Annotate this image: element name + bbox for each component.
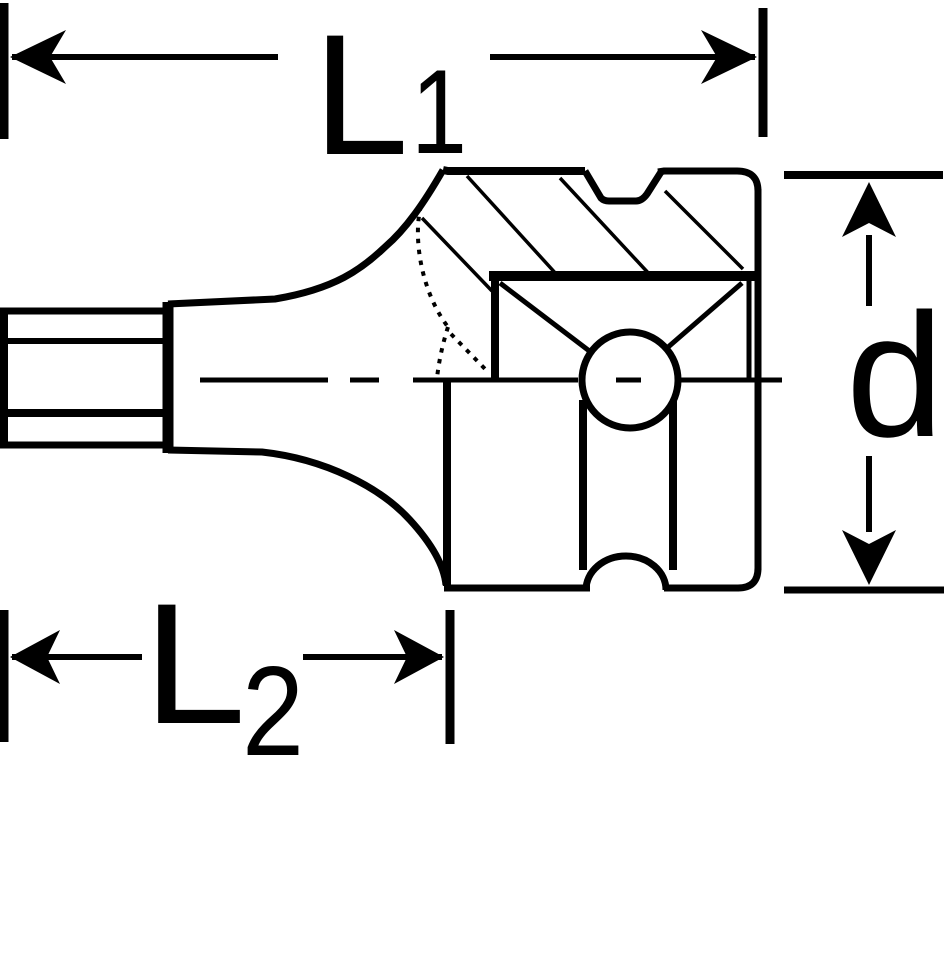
svg-text:1: 1 bbox=[411, 45, 467, 179]
section hatch line B bbox=[560, 178, 652, 277]
svg-text:2: 2 bbox=[242, 640, 304, 782]
drive head lower-left edge bbox=[443, 380, 451, 586]
dimension L1 arrow left bbox=[10, 30, 278, 84]
dimension L1 arrow right bbox=[490, 30, 757, 84]
hex bit bottom edge bbox=[0, 442, 167, 449]
drive head right edge bbox=[755, 189, 762, 570]
hex bit top edge bbox=[0, 308, 167, 315]
hex bit facet line upper bbox=[0, 338, 167, 344]
svg-text:L: L bbox=[313, 0, 409, 191]
centerline dash 2 bbox=[350, 378, 379, 383]
drive head bottom edge right of arch bbox=[664, 585, 739, 592]
section hatch line C bbox=[665, 191, 743, 269]
square drive top line (thick) bbox=[489, 271, 755, 281]
section boundary dotted curve bbox=[418, 206, 448, 327]
body top contour bbox=[168, 170, 443, 304]
drive head bottom edge left of arch bbox=[444, 585, 590, 592]
section boundary dotted branch lower-right bbox=[451, 334, 488, 372]
square drive V diagonal right bbox=[667, 283, 742, 348]
dimension L2 arrow right bbox=[303, 630, 444, 684]
drive head bottom-right corner bbox=[738, 568, 758, 588]
hex bit left end cap bbox=[0, 308, 8, 448]
section boundary dotted branch lower-left bbox=[437, 327, 448, 378]
body bottom contour bbox=[168, 450, 446, 585]
dimension L1 extension line right bbox=[759, 8, 768, 137]
drive head top groove bbox=[585, 171, 661, 201]
centerline dash 4 bbox=[680, 378, 782, 383]
dimension d extension line top bbox=[784, 171, 943, 179]
drive head top edge left of groove bbox=[443, 170, 585, 171]
section hatch line D bbox=[422, 218, 492, 291]
centerline dash 3 bbox=[413, 378, 578, 383]
retaining ball bbox=[582, 332, 678, 428]
dimension L2 arrow left bbox=[10, 630, 142, 684]
square drive right edge bbox=[747, 276, 752, 378]
dimension L2 extension line left bbox=[0, 610, 9, 742]
ball channel wall right bbox=[669, 400, 677, 570]
square drive left edge bbox=[491, 276, 499, 378]
drive head bottom arch (ball channel opening) bbox=[586, 556, 666, 590]
dimension d extension line bottom bbox=[784, 587, 944, 594]
dimension d arrow down bbox=[842, 456, 896, 585]
dimension d arrow up bbox=[842, 182, 896, 306]
drive head top edge right of groove bbox=[658, 171, 758, 191]
hex bit facet line lower bbox=[0, 409, 167, 417]
bit holder front edge bbox=[163, 302, 174, 453]
dimension L2 extension line right bbox=[446, 610, 455, 744]
square drive V diagonal left bbox=[500, 283, 592, 353]
ball channel wall left bbox=[579, 400, 587, 570]
dimension L1 extension line left bbox=[0, 3, 9, 139]
svg-text:L: L bbox=[143, 568, 246, 760]
ball center dash bbox=[616, 378, 641, 383]
svg-text:d: d bbox=[846, 278, 944, 474]
section hatch line A bbox=[467, 176, 558, 276]
centerline dash 1 bbox=[200, 378, 328, 383]
